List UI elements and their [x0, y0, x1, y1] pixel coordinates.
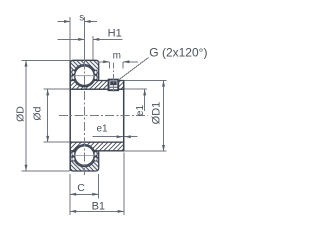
- svg-text:B1: B1: [92, 200, 105, 212]
- svg-text:m: m: [113, 51, 121, 62]
- svg-text:ØD1: ØD1: [150, 102, 162, 125]
- svg-text:e1: e1: [96, 123, 108, 134]
- svg-text:Ød: Ød: [31, 106, 43, 120]
- svg-text:C: C: [77, 182, 85, 194]
- svg-text:H1: H1: [108, 27, 122, 39]
- svg-text:G (2x120°): G (2x120°): [149, 46, 207, 60]
- svg-text:ØD: ØD: [14, 106, 26, 122]
- svg-text:e1: e1: [135, 105, 146, 117]
- svg-text:s: s: [79, 13, 84, 24]
